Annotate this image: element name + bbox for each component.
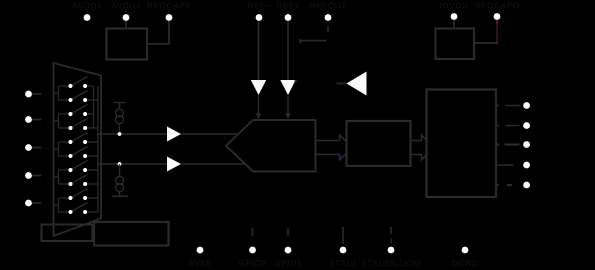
pin IOVDD: [451, 13, 458, 20]
wire SDI: [497, 144, 520, 146]
svg-text:AVSS: AVSS: [188, 258, 212, 268]
wire XTAL2 stub: [390, 227, 392, 244]
svg-text:REFOUT: REFOUT: [309, 1, 347, 11]
current source 2 rail bar: [112, 192, 128, 197]
pin REF+: [285, 14, 292, 21]
switch row 4: [71, 119, 98, 129]
switch row 3: [71, 105, 94, 115]
pin XTAL2/CLKIO: [388, 247, 395, 254]
analog LDO box: [107, 29, 148, 60]
buffer 1 triangle: [167, 127, 181, 142]
svg-text:REGCAPD: REGCAPD: [474, 1, 519, 11]
wire output wire to current source 2: [119, 164, 121, 177]
wire VIN row4 stub: [32, 175, 42, 177]
pin AVDD2: [123, 14, 130, 21]
pin AVSS: [197, 247, 204, 254]
reference buffer triangle (points left): [347, 72, 367, 96]
wire mux output 2 to buffer 2: [98, 163, 167, 165]
svg-text:AVDD1: AVDD1: [72, 1, 102, 11]
wire REFOUT stub: [327, 26, 329, 32]
pin DGND: [462, 247, 469, 254]
bottom-left box 2: [94, 222, 169, 246]
svg-text:REGCAPA: REGCAPA: [147, 1, 192, 11]
switch row 9: [71, 189, 98, 199]
pin GPIO1: [285, 247, 292, 254]
svg-text:DGND: DGND: [452, 258, 479, 268]
REF+ white arrow: [280, 80, 295, 95]
svg-text:XTAL1: XTAL1: [329, 258, 357, 268]
wire DOUT/RDY: [497, 164, 514, 166]
hollow arrow filter to interface: [411, 135, 428, 160]
svg-text:REF−: REF−: [247, 1, 271, 11]
mux output bus 2: [97, 86, 99, 212]
wire current source 1 to output wire: [119, 124, 121, 134]
svg-text:XTAL2/CLKIO: XTAL2/CLKIO: [361, 258, 421, 268]
pin REFOUT: [325, 14, 332, 21]
wire fragment left of reference buffer: [295, 80, 298, 82]
input bracket pair 5: [54, 198, 69, 212]
switch row 8: [71, 175, 98, 185]
wire VIN row3 stub: [32, 147, 42, 149]
wire buffer 2 to modulator: [181, 163, 245, 165]
wire REF- arrow to modulator: [258, 95, 260, 114]
current source 1 rail bar: [113, 103, 125, 109]
wire VIN row1 stub: [32, 93, 42, 95]
svg-text:REF+: REF+: [276, 1, 300, 11]
wire buffer 1 to modulator: [181, 133, 238, 135]
switch row 7: [71, 161, 98, 171]
mux contact dots: [69, 84, 88, 214]
wire fragment near REFOUT: [300, 39, 326, 44]
wire REF+ arrow to modulator: [287, 95, 289, 114]
digital filter box: [347, 121, 411, 166]
wire REF- down: [258, 21, 260, 80]
wire GPIO1 stub: [287, 228, 289, 236]
switch row 10: [71, 203, 98, 213]
wire SYNC/ERROR fragment: [497, 184, 513, 186]
input bracket pair 1: [54, 86, 69, 100]
mux output bus 1: [93, 86, 95, 128]
pin VIN row1: [25, 91, 32, 98]
switch row 1: [71, 77, 94, 87]
pin SCLK: [523, 122, 530, 129]
pin REF-: [256, 14, 263, 21]
digital LDO box: [436, 29, 475, 60]
junction dot on wire 2: [118, 162, 122, 166]
wire IOVDD to digital LDO: [453, 20, 455, 28]
pin AVDD1: [84, 14, 91, 21]
pin GPIO0: [249, 247, 256, 254]
mux interior: [54, 77, 98, 213]
svg-text:GPIO1: GPIO1: [274, 258, 302, 268]
pin VIN row5: [25, 200, 32, 207]
wire VIN row2 stub: [32, 119, 42, 121]
input bracket pair 4: [54, 170, 69, 184]
switch row 6: [71, 147, 98, 157]
wire stub at reference buffer tip: [337, 83, 347, 85]
hollow arrow modulator to filter: [316, 135, 347, 160]
serial interface and control box: [427, 90, 497, 198]
REF+ small arrowhead: [285, 113, 291, 119]
wire mux output 1 to buffer 1: [98, 133, 167, 135]
wire AVDD2 to analog LDO: [125, 21, 127, 28]
wire SCLK: [497, 125, 520, 127]
switch row 2: [71, 91, 98, 101]
pin SDI: [523, 141, 530, 148]
pin DOUT/RDY: [523, 162, 530, 169]
REF- small arrowhead: [256, 113, 262, 119]
junction dot on wire 1: [118, 132, 122, 136]
wire GPIO0 stub: [252, 228, 254, 236]
pin VIN row2: [25, 116, 32, 123]
wire VIN row5 stub: [32, 202, 42, 204]
bottom-left box 1: [42, 225, 93, 242]
current source 2 circles: [116, 177, 124, 185]
wire CS: [497, 105, 521, 107]
wire XTAL1 stub: [342, 227, 344, 244]
REF- white arrow: [251, 80, 266, 95]
current source 1 circles: [116, 109, 124, 117]
wire REGCAPD vertical (maroon tint): [496, 21, 498, 44]
wire REGCAPA to analog LDO: [148, 21, 170, 44]
pin REGCAPA: [166, 14, 173, 21]
sigma-delta modulator pentagon: [226, 120, 316, 172]
pin CS: [523, 102, 530, 109]
wire REGCAPD horizontal to digital LDO: [475, 42, 498, 44]
pin VIN row4: [25, 172, 32, 179]
pin XTAL1: [340, 247, 347, 254]
switch row 5: [71, 133, 98, 143]
buffer 2 triangle: [167, 157, 181, 172]
crosspoint mux trapezoid: [54, 63, 102, 236]
pin REGCAPD: [494, 13, 501, 20]
wire REF+ down: [287, 21, 289, 80]
svg-text:IOVDD: IOVDD: [440, 1, 469, 11]
pin VIN row3: [25, 144, 32, 151]
pin SYNC/ERROR: [523, 182, 530, 189]
input bracket pair 3: [54, 142, 69, 156]
input bracket pair 2: [54, 114, 69, 128]
svg-text:AVDD2: AVDD2: [111, 1, 141, 11]
blue artifact pixel: [340, 156, 341, 157]
svg-text:GPIO0: GPIO0: [239, 258, 267, 268]
